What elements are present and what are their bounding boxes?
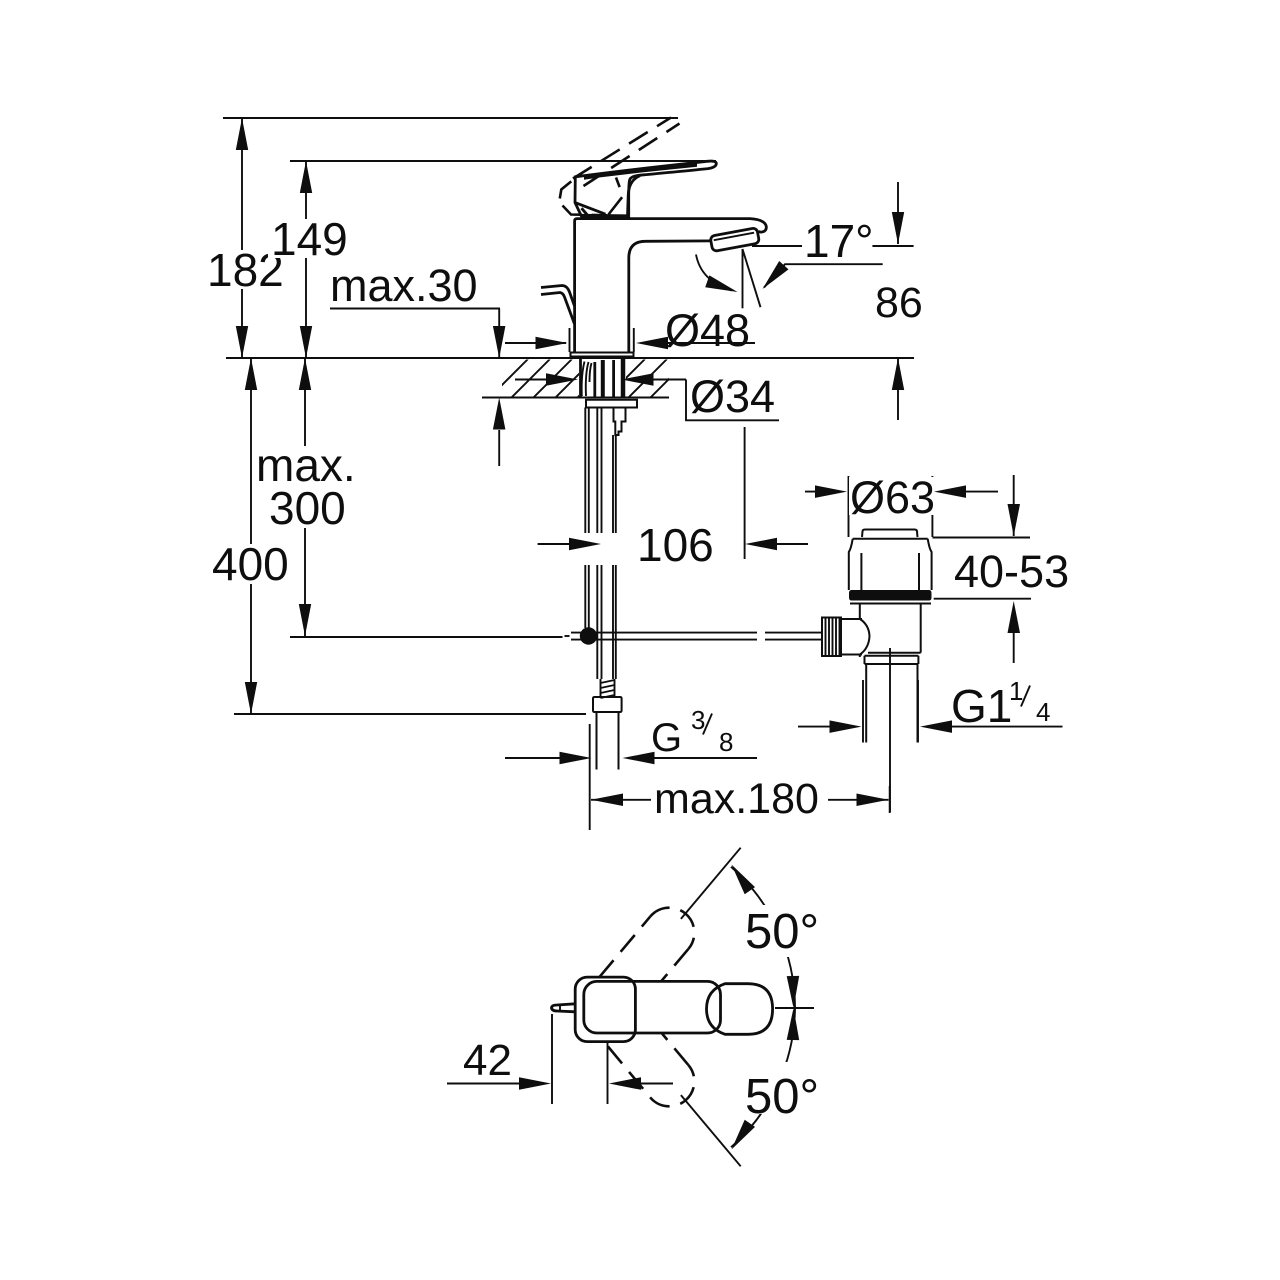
arc arrowhead lower: [732, 1120, 756, 1150]
dim G1 1/4 ext lines: [862, 680, 864, 743]
dashed handle rotated down 50°: [608, 1034, 694, 1107]
knurled knob: [822, 618, 841, 657]
dim 182 vertical line: [241, 118, 243, 358]
dim 40-53 vertical: [1013, 475, 1015, 536]
drain flange: [849, 539, 932, 590]
handle small notch: [582, 208, 589, 216]
mounting nut: [586, 400, 637, 408]
svg-text:17°: 17°: [804, 215, 874, 267]
17° angle lines at aerator: [742, 249, 744, 308]
dim G3/8 arrows: [505, 757, 570, 759]
handle base cap (black wedge): [582, 214, 627, 219]
handle lever solid outline: [575, 161, 716, 216]
tailpipe: [865, 664, 867, 743]
dim 42: [551, 1014, 553, 1104]
dim max.30 arrow up (below deck): [493, 398, 506, 430]
white masks for 50 labels: [741, 905, 826, 957]
dim Ø48 arrows: [505, 342, 566, 344]
deck bottom line: [482, 397, 669, 399]
svg-text:50°: 50°: [745, 905, 819, 959]
dim 106 ext line: [744, 427, 746, 559]
curved hose in shank: [582, 362, 585, 397]
horizontal pop-up rod: [571, 632, 757, 634]
17° leader: [764, 264, 883, 287]
dashed lever (open position): [573, 118, 680, 187]
dim 149 vertical line: [305, 161, 307, 358]
dim 86: [897, 182, 899, 244]
dim 182 arrow down: [236, 326, 248, 358]
svg-text:4: 4: [1036, 697, 1050, 727]
supply pipe below deck: [596, 408, 598, 534]
ray upper 50°: [681, 848, 741, 919]
svg-text:max.30: max.30: [330, 260, 478, 311]
dim 400 bottom ref line: [234, 713, 586, 715]
dim max.300 vertical: [304, 358, 306, 636]
rubber gasket: [849, 590, 932, 601]
dim 149 arrow up: [300, 161, 312, 193]
body top line under gasket: [850, 603, 931, 605]
svg-text:Ø34: Ø34: [690, 371, 775, 422]
svg-text:Ø48: Ø48: [665, 305, 750, 356]
drain plug cap: [862, 530, 918, 538]
tailpipe centerline: [889, 648, 891, 812]
label max. 300: [252, 446, 356, 528]
handle blade: [584, 981, 721, 1033]
svg-text:300: 300: [269, 482, 346, 534]
svg-text:400: 400: [212, 538, 289, 590]
DRAIN VALVE: [798, 472, 1069, 812]
BOTTOM VIEW: [447, 848, 826, 1167]
supply pipe end: [596, 712, 598, 770]
body bottom ring: [868, 652, 921, 654]
handle escutcheon cap: [575, 977, 635, 1042]
dim Ø63 arrows: [805, 491, 826, 493]
svg-text:42: 42: [463, 1036, 512, 1085]
dim 400 vertical: [250, 358, 252, 714]
SIDE VIEW: [204, 118, 923, 831]
ray lower 50°: [681, 1095, 741, 1166]
aerator tip: [710, 228, 760, 252]
angle arc lower: [731, 1007, 795, 1147]
G3/8 thread: [601, 679, 615, 698]
label 149: [268, 219, 346, 258]
faucet spout underside: [629, 241, 712, 353]
dim 106 arrows: [538, 543, 576, 545]
handle grip: [707, 984, 773, 1035]
dim max.180: [589, 724, 591, 830]
dim 149 arrow down: [300, 326, 312, 358]
dim 17°: [752, 245, 802, 247]
G3/8 nut: [593, 697, 622, 712]
svg-text:40-53: 40-53: [954, 546, 1069, 597]
base flange: [571, 353, 634, 357]
svg-text:max.180: max.180: [654, 775, 819, 823]
reference line (149 level): [290, 160, 716, 162]
shank through deck: [581, 359, 624, 397]
svg-text:86: 86: [875, 279, 923, 327]
axis line + bowtie arrows: [775, 1007, 814, 1009]
svg-text:G: G: [651, 716, 682, 760]
dim G1 1/4 arrows: [798, 726, 840, 728]
body walls: [859, 604, 861, 620]
dim max.30 arrow down: [493, 326, 506, 358]
svg-text:8: 8: [719, 727, 733, 757]
temperature limiter pin: [552, 1004, 576, 1012]
17° arc: [696, 255, 732, 291]
deck top line: [226, 357, 914, 359]
label 400: [209, 544, 289, 584]
dim max.30 line: [330, 308, 500, 310]
dim 182 arrow up: [236, 118, 248, 150]
threaded stud steps: [614, 408, 626, 436]
drain flange inner walls: [860, 553, 862, 590]
arc arrowhead upper: [732, 865, 756, 895]
handle neck curve: [628, 176, 641, 217]
dashed handle body (open position): [560, 178, 623, 216]
handle blob bottom edge: [575, 203, 606, 215]
svg-text:50°: 50°: [745, 1070, 819, 1124]
max300 bottom ref line: [290, 636, 563, 638]
svg-text:149: 149: [271, 213, 348, 265]
svg-text:G1: G1: [951, 680, 1012, 732]
angle arc upper: [731, 867, 795, 1007]
label 182: [204, 250, 280, 289]
pop-up rod below deck: [584, 408, 586, 534]
svg-text:3: 3: [691, 705, 705, 735]
Ø34 label box: [686, 380, 779, 421]
reference line top (182 level): [223, 117, 678, 119]
handle blade dark fill: [584, 163, 697, 180]
side port: [841, 618, 862, 620]
dim Ø63 ext lines: [848, 476, 850, 537]
svg-text:1: 1: [1009, 676, 1023, 706]
label Ø63: [849, 477, 934, 515]
faucet body outline: [575, 219, 767, 353]
pop-up knob behind body: [541, 286, 575, 307]
svg-text:106: 106: [637, 519, 714, 571]
ball joint: [580, 627, 597, 644]
svg-text:Ø63: Ø63: [850, 472, 935, 523]
dashed handle rotated up 50°: [599, 908, 694, 982]
dim Ø34: [515, 379, 558, 381]
dim Ø48 ext lines: [569, 328, 571, 352]
